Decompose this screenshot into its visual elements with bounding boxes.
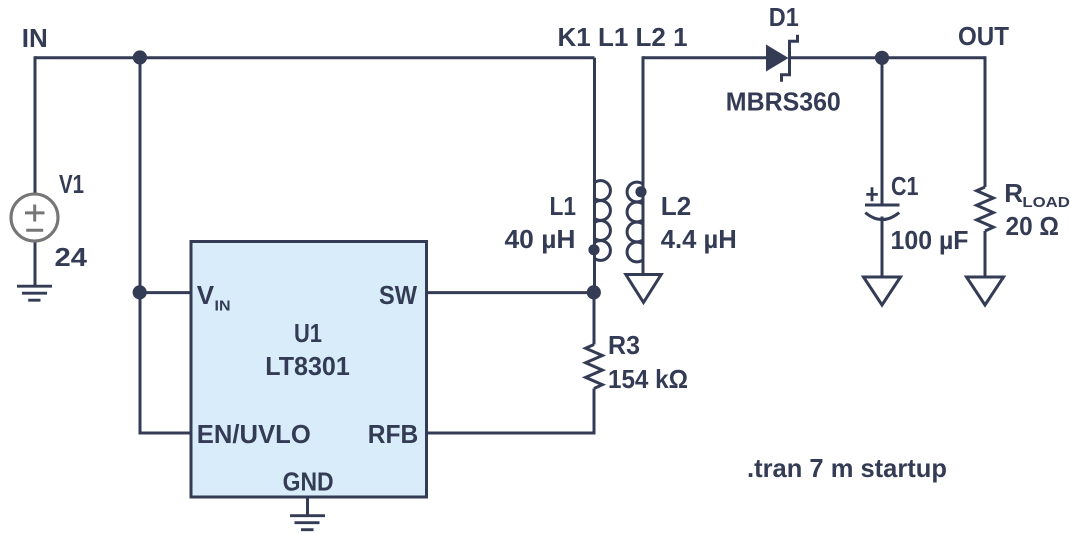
ground arrow under RLOAD — [967, 277, 1004, 305]
svg-text:LT8301: LT8301 — [265, 351, 350, 381]
wire C1 top drop — [881, 58, 884, 204]
ground under V1 — [17, 286, 52, 300]
svg-text:GND: GND — [283, 467, 334, 497]
svg-text:D1: D1 — [769, 2, 799, 32]
svg-text:R3: R3 — [608, 330, 640, 360]
svg-text:R: R — [1004, 178, 1023, 208]
C1 plus sign — [866, 187, 878, 201]
junction dot VIN node — [133, 285, 147, 299]
wire VIN pin — [139, 291, 193, 294]
L1 polarity dot — [588, 244, 599, 255]
wire R3 bottom to RFB corner — [427, 389, 596, 434]
wire V1 bottom to ground — [34, 241, 37, 287]
diode D1 triangle — [766, 45, 789, 72]
svg-text:20 Ω: 20 Ω — [1006, 211, 1060, 241]
svg-text:IN: IN — [215, 298, 231, 315]
wire L2 secondary vertical — [642, 56, 645, 275]
V1 plus sign — [25, 205, 45, 222]
wire SW pin to L1 bottom node — [427, 291, 595, 294]
svg-text:L1: L1 — [550, 191, 577, 221]
wire L2 top to D1 anode — [643, 56, 767, 59]
svg-text:EN/UVLO: EN/UVLO — [197, 419, 311, 449]
svg-text:154 kΩ: 154 kΩ — [608, 364, 688, 394]
wire D1 cathode to OUT corner — [790, 56, 986, 59]
svg-text:.tran 7 m startup: .tran 7 m startup — [747, 453, 947, 483]
wire RLOAD bottom to ground arrow — [984, 231, 987, 277]
op-amp U1 block LT8301 — [191, 242, 427, 498]
svg-text:LOAD: LOAD — [1022, 194, 1070, 211]
svg-text:U1: U1 — [294, 318, 322, 348]
inductor L2 winding loops — [627, 182, 643, 262]
inductor L1 winding loops — [595, 181, 611, 261]
junction dot input rail top — [133, 50, 147, 64]
wire IN left drop to V1 — [34, 56, 37, 194]
wire OUT drop to RLOAD — [984, 56, 987, 187]
wire U1 GND stub — [306, 497, 309, 515]
junction dot SW / L1 / R3 node — [587, 285, 601, 299]
resistor R3 zigzag — [586, 345, 603, 389]
capacitor C1 top plate — [865, 204, 900, 207]
svg-text:IN: IN — [22, 23, 48, 53]
capacitor C1 curved plate — [865, 213, 899, 220]
diode D1 schottky cathode bar — [782, 35, 798, 82]
svg-text:V: V — [197, 280, 215, 310]
svg-text:L2: L2 — [661, 191, 692, 221]
junction dot diode output node — [875, 51, 889, 65]
svg-text:SW: SW — [379, 280, 417, 310]
svg-text:4.4 µH: 4.4 µH — [661, 224, 737, 254]
svg-text:V1: V1 — [59, 169, 84, 199]
ground under U1 — [290, 516, 325, 530]
wire IN top rail — [35, 56, 595, 59]
svg-text:24: 24 — [55, 242, 88, 272]
ground arrow under L2 — [626, 275, 661, 303]
wire C1 bottom to ground arrow — [881, 217, 884, 278]
svg-text:K1 L1 L2 1: K1 L1 L2 1 — [558, 22, 688, 52]
svg-text:40 µH: 40 µH — [505, 224, 576, 254]
svg-text:RFB: RFB — [368, 419, 419, 449]
wire R3 top from SW node — [593, 293, 596, 345]
wire input rail vertical drop — [139, 58, 142, 433]
resistor RLOAD zigzag — [977, 187, 994, 231]
wire L1 primary vertical — [593, 58, 596, 293]
svg-text:MBRS360: MBRS360 — [726, 87, 841, 117]
V1 minus sign — [26, 229, 43, 232]
svg-text:C1: C1 — [891, 171, 919, 201]
wire EN/UVLO pin — [139, 432, 193, 435]
L2 polarity dot — [635, 186, 646, 197]
voltage source V1 circle — [11, 194, 58, 241]
svg-text:OUT: OUT — [958, 21, 1009, 51]
ground arrow under C1 — [864, 277, 901, 305]
svg-text:100 µF: 100 µF — [891, 225, 969, 255]
